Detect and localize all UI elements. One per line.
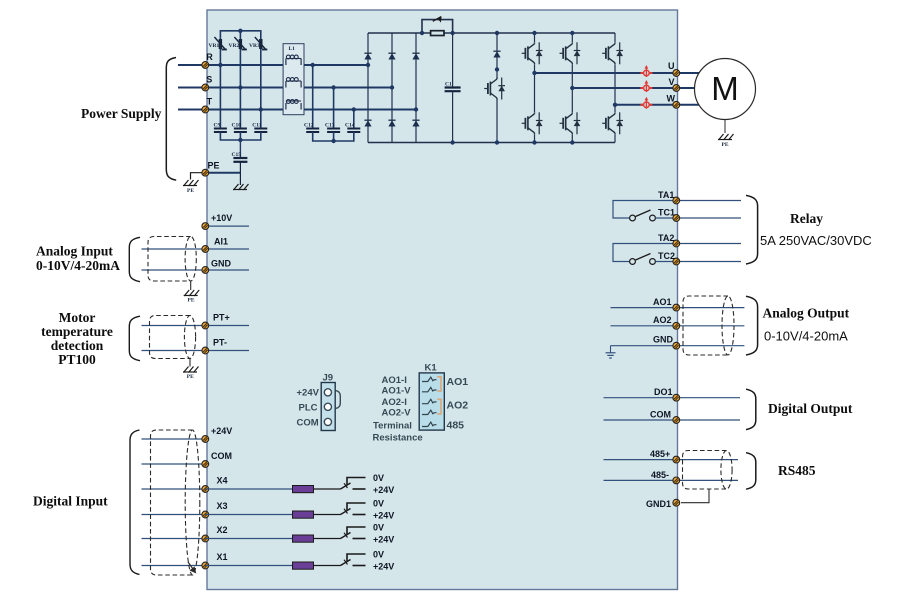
diode D3 (412, 53, 419, 59)
svg-text:+24V: +24V (211, 426, 232, 436)
svg-text:PE: PE (187, 188, 194, 194)
wire rectifier leg 3 (415, 33, 417, 143)
varistor VR3 column wire (260, 65, 262, 110)
node C13-S junction (331, 85, 335, 89)
wire AO1 output (680, 307, 744, 309)
varistor VR3 (255, 37, 268, 50)
capacitor C13 (327, 129, 340, 133)
capacitor C14 column wire (353, 110, 355, 129)
node chopper mid junction (495, 67, 499, 71)
wire X3 resistor to switch (314, 514, 341, 516)
wire C10 to join (239, 132, 241, 140)
terminal 485- (673, 477, 680, 484)
wire X1 external (142, 565, 206, 567)
svg-text:C12: C12 (304, 123, 314, 129)
wire +10V stub (205, 225, 249, 227)
svg-text:PE: PE (187, 374, 194, 380)
brake bypass switch arrow (433, 16, 442, 22)
svg-text:PE: PE (188, 298, 195, 304)
terminal TC2 (673, 258, 680, 265)
terminal AI1 (202, 246, 209, 253)
resistor X2 input (293, 535, 314, 542)
svg-text:K1: K1 (425, 363, 438, 374)
capacitor C9 column wire (219, 65, 221, 128)
terminal W (673, 101, 680, 108)
wire X3 external (142, 514, 206, 516)
svg-text:AO1: AO1 (653, 297, 672, 307)
svg-text:5A 250VAC/30VDC: 5A 250VAC/30VDC (760, 233, 872, 248)
diode chopper series (493, 51, 500, 57)
svg-text:Analog Input: Analog Input (36, 244, 113, 259)
svg-text:L1: L1 (289, 46, 296, 52)
svg-text:PT100: PT100 (58, 352, 96, 367)
svg-text:X2: X2 (217, 525, 228, 535)
varistor VR2 (234, 37, 247, 50)
wire C1 column upper (452, 33, 454, 87)
svg-text:W: W (667, 94, 676, 104)
svg-text:C14: C14 (345, 123, 355, 129)
wire AO2 stub inside (611, 325, 673, 327)
brace analog input (129, 237, 140, 281)
svg-text:GND: GND (653, 335, 674, 345)
wire inverter leg1 (534, 33, 536, 143)
wire PT- external (142, 350, 206, 352)
wire X4 to resistor (205, 488, 292, 490)
diode D6 (412, 120, 419, 126)
relay contact 1 (630, 210, 656, 221)
wire DO1 output (680, 397, 740, 399)
node C1 bottom junction (450, 140, 454, 144)
svg-text:485+: 485+ (650, 449, 670, 459)
inductor L1 box (283, 44, 304, 115)
wire S to rectifier (205, 87, 392, 89)
wire DC+ top bus (368, 32, 615, 34)
svg-text:0-10V/4-20mA: 0-10V/4-20mA (36, 258, 120, 273)
terminal X4 (202, 486, 209, 493)
node inverter bottom leg2 (570, 140, 574, 144)
terminal AO GND (673, 342, 680, 349)
svg-text:+24V: +24V (373, 535, 394, 545)
terminal V (673, 85, 680, 92)
svg-text:0V: 0V (373, 523, 384, 533)
svg-text:COM: COM (297, 418, 319, 429)
node inverter top leg2 (570, 31, 574, 35)
brake resistor bypass loop wire (422, 20, 453, 33)
svg-text:0V: 0V (373, 550, 384, 560)
wire 485+ stub inside (604, 459, 673, 461)
wire DO COM output (680, 419, 740, 421)
wire TA1 output (680, 200, 741, 202)
node VR1-R junction (218, 63, 222, 67)
terminal S (202, 84, 209, 91)
node brake loop left (420, 31, 424, 35)
wire PE to C15 column (205, 172, 240, 174)
svg-text:0V: 0V (373, 499, 384, 509)
shielded cable PT100 (150, 316, 196, 359)
wire relay1 TA1 loop (613, 201, 673, 219)
terminal TC1 (673, 215, 680, 222)
brace digital output (746, 389, 756, 429)
varistor VR1 (214, 37, 227, 50)
DIP switch K1 sw1 (422, 377, 437, 381)
wire TC2 output (680, 261, 741, 263)
relay contact 2 (630, 254, 656, 265)
ground PT100 shield (183, 367, 199, 373)
wire R to rectifier (205, 64, 368, 66)
diode D4 (364, 120, 371, 126)
wire AI1 external (142, 248, 206, 250)
node chopper top junction (495, 31, 499, 35)
svg-text:C13: C13 (325, 123, 335, 129)
brace digital input (130, 430, 140, 575)
transistor Q1 IGBT (522, 42, 543, 64)
capacitor C10 (234, 129, 247, 133)
ground motor PE (718, 134, 734, 140)
wire AO GND output (680, 345, 744, 347)
capacitor C15 (233, 158, 247, 162)
svg-text:VR3: VR3 (249, 43, 260, 49)
wire PT100 shield to ground (189, 359, 191, 367)
inductor L1 coil S (286, 78, 301, 88)
svg-text:485-: 485- (651, 470, 669, 480)
svg-text:0V: 0V (373, 473, 384, 483)
wire 485- stub inside (604, 479, 673, 481)
terminal AO1 (673, 304, 680, 311)
current sensor U phase (640, 65, 652, 77)
brace analog output (746, 296, 758, 355)
resistor X4 input (293, 486, 314, 493)
svg-text:COM: COM (211, 451, 232, 461)
motor M (695, 59, 756, 120)
terminal X1 (202, 562, 209, 569)
wire C13 to join (333, 132, 335, 141)
brace power supply (166, 58, 176, 181)
svg-text:U: U (668, 61, 675, 71)
DIP switch K1 sw4 (422, 410, 437, 414)
terminal +10V (202, 223, 209, 230)
wire relay2 TA2 loop (613, 244, 673, 262)
node W junction (613, 103, 617, 107)
svg-text:PE: PE (722, 142, 729, 148)
switch X4 SPDT (341, 478, 366, 490)
node VR2-S junction (238, 85, 242, 89)
svg-text:RS485: RS485 (778, 463, 816, 478)
svg-text:AO2: AO2 (653, 315, 672, 325)
capacitor C12 (306, 129, 319, 133)
wire analog input shield to ground (190, 281, 192, 290)
connector J9 pin2 (324, 403, 331, 410)
svg-text:C11: C11 (252, 123, 261, 129)
capacitor C12 column wire (312, 65, 314, 128)
digital input shield drain arrow (188, 562, 196, 573)
resistor X3 input (293, 511, 314, 518)
inductor L1 coil T (286, 100, 301, 110)
connector J9 pin1 (324, 389, 331, 396)
wire AO2 output (680, 325, 744, 327)
diode D2 (388, 53, 395, 59)
svg-text:AO2: AO2 (447, 400, 469, 412)
svg-text:AO2-V: AO2-V (382, 408, 412, 419)
terminal DO COM (673, 417, 680, 424)
wire X2 external (142, 538, 206, 540)
brace RS485 (746, 453, 756, 490)
wire rectifier leg 1 (367, 33, 369, 143)
wire inverter leg2 (571, 33, 573, 143)
node brake loop right (450, 31, 454, 35)
wire TA2 output (680, 243, 741, 245)
current sensor V phase (640, 80, 652, 92)
svg-text:PLC: PLC (299, 403, 318, 414)
terminal 485+ (673, 456, 680, 463)
DIP switch K1 sw2 (422, 387, 437, 391)
svg-text:C15: C15 (232, 152, 242, 158)
current sensor W phase (640, 97, 652, 109)
terminal R (202, 62, 209, 69)
wire PT- stub inside (205, 350, 249, 352)
terminal analog GND (202, 267, 209, 274)
brace relay (746, 195, 758, 264)
node VR3-T junction (259, 107, 263, 111)
terminal AO2 (673, 322, 680, 329)
wire S input stub (178, 87, 205, 89)
capacitor C10 column wire (239, 88, 241, 129)
wire X2 resistor to switch (314, 538, 341, 540)
svg-text:TA1: TA1 (658, 190, 674, 200)
transistor Q4 IGBT (560, 112, 581, 134)
capacitor C13 column wire (333, 88, 335, 129)
signal ground AO (606, 346, 616, 358)
wire C1 column lower (452, 91, 454, 142)
ground below C15 (233, 184, 249, 190)
varistor top bus wire (220, 31, 260, 65)
DIP switch K1 body (419, 373, 444, 430)
wire relay1 to TC1 (655, 217, 672, 219)
svg-text:X4: X4 (217, 476, 228, 486)
ground analog input shield (184, 290, 200, 296)
connector J9 pin3 (324, 418, 331, 425)
svg-text:+24V: +24V (373, 485, 394, 495)
svg-text:TC2: TC2 (658, 251, 675, 261)
wire COM external (142, 463, 206, 465)
shielded cable digital input (151, 430, 200, 575)
svg-text:0-10V/4-20mA: 0-10V/4-20mA (764, 329, 848, 344)
wire DC- bottom bus (368, 142, 615, 144)
wire relay2 to TC2 (655, 261, 672, 263)
wire AI1 stub inside (205, 248, 249, 250)
svg-text:temperature: temperature (41, 324, 113, 339)
svg-text:AO1: AO1 (447, 376, 469, 388)
svg-text:detection: detection (51, 338, 104, 353)
wire U output (535, 72, 673, 74)
svg-text:485: 485 (447, 420, 465, 432)
terminal GND1 (673, 499, 680, 506)
svg-text:PE: PE (208, 161, 220, 171)
svg-text:X3: X3 (217, 501, 228, 511)
wire PE external stub (191, 173, 206, 180)
svg-text:DO1: DO1 (654, 387, 673, 397)
svg-text:COM: COM (650, 410, 671, 420)
wire V output (572, 87, 672, 89)
brace PT100 (129, 316, 140, 361)
wire T to rectifier (205, 109, 416, 111)
shielded cable RS485 (683, 451, 733, 490)
svg-text:M: M (711, 70, 739, 107)
svg-text:V: V (668, 77, 674, 87)
svg-text:S: S (206, 74, 212, 84)
wire GND external (142, 269, 206, 271)
capacitor C11 column wire (260, 110, 262, 129)
capacitor C11 (254, 129, 267, 133)
svg-text:AO1-V: AO1-V (382, 386, 412, 397)
wire TC1 output (680, 217, 741, 219)
svg-text:X1: X1 (217, 552, 228, 562)
switch X1 SPDT (341, 554, 366, 566)
wire C12-C14 bottom join (313, 132, 354, 141)
wire GND stub inside (205, 269, 249, 271)
svg-text:PT+: PT+ (213, 313, 230, 323)
node U junction (532, 71, 536, 75)
capacitor C9 (214, 129, 227, 133)
wire X3 to resistor (205, 514, 292, 516)
wire 485+ output (680, 459, 738, 461)
switch X3 SPDT (341, 503, 366, 515)
K1 bracket AO1 (437, 377, 441, 391)
svg-text:AI1: AI1 (214, 237, 228, 247)
terminal PE (202, 169, 209, 176)
capacitor C1 (445, 88, 461, 92)
diode D5 (388, 120, 395, 126)
wire V to motor (680, 87, 695, 89)
node rectifier leg2 S junction (390, 85, 394, 89)
wire DO1 stub inside (604, 397, 673, 399)
DIP switch K1 sw5 (422, 422, 437, 426)
transistor Q6 IGBT (602, 112, 623, 134)
wire AO GND stub inside (611, 345, 673, 347)
connector J9 body (321, 383, 335, 431)
svg-text:C9: C9 (214, 123, 221, 129)
svg-text:VR1: VR1 (209, 43, 220, 49)
wire X4 resistor to switch (314, 488, 341, 490)
svg-text:TA2: TA2 (658, 233, 674, 243)
wire PT+ stub inside (205, 325, 249, 327)
terminal +24V (202, 436, 209, 443)
svg-text:Terminal: Terminal (373, 421, 412, 432)
node C13 join (331, 139, 335, 143)
wire RS485 shield to GND1 (681, 489, 709, 503)
resistor brake (braking resistor) (431, 31, 444, 36)
wire rectifier leg 2 (391, 33, 393, 143)
svg-text:+24V: +24V (373, 511, 394, 521)
wire motor to ground (724, 120, 726, 134)
svg-text:PT-: PT- (213, 338, 227, 348)
node V junction (570, 86, 574, 90)
svg-text:Digital Output: Digital Output (768, 401, 853, 416)
node chopper bottom junction (495, 140, 499, 144)
svg-text:T: T (207, 97, 213, 107)
wire +24V external (142, 438, 206, 440)
transistor chopper IGBT (484, 78, 505, 100)
svg-text:Digital Input: Digital Input (33, 494, 108, 509)
wire R input stub (178, 64, 205, 66)
wire T input stub (178, 109, 205, 111)
shielded cable analog output (683, 296, 734, 355)
wire W output (615, 104, 673, 106)
terminal TA2 (673, 240, 680, 247)
wire W to motor (680, 104, 700, 106)
svg-text:GND1: GND1 (646, 499, 671, 509)
node inverter top leg1 (532, 31, 536, 35)
terminal T (202, 106, 209, 113)
wire 485- output (680, 479, 738, 481)
svg-text:R: R (206, 52, 213, 62)
terminal PT- (202, 347, 209, 354)
node C12-R junction (311, 63, 315, 67)
svg-text:+10V: +10V (211, 213, 232, 223)
node C14-T junction (352, 107, 356, 111)
switch X2 SPDT (341, 527, 366, 539)
wire chopper leg upper (496, 33, 498, 78)
transistor Q3 IGBT (560, 42, 581, 64)
svg-text:Power Supply: Power Supply (81, 106, 162, 121)
wire DO COM stub inside (604, 419, 673, 421)
node rectifier leg1 R junction (366, 63, 370, 67)
node rectifier leg3 T junction (414, 107, 418, 111)
transistor Q5 IGBT (602, 42, 623, 64)
svg-text:+24V: +24V (373, 562, 394, 572)
diode D1 (364, 53, 371, 59)
terminal X2 (202, 535, 209, 542)
DIP switch K1 sw3 (422, 399, 437, 403)
connector J9 jumper bracket (336, 391, 341, 409)
wire chopper leg lower (496, 100, 498, 143)
svg-text:Motor: Motor (59, 310, 96, 325)
main drive enclosure box (207, 10, 678, 590)
capacitor C14 (347, 129, 360, 133)
inductor L1 coil R (286, 55, 301, 65)
wire U to motor (680, 72, 700, 74)
ground PE external (183, 180, 199, 186)
varistor VR2 column wire (239, 31, 241, 88)
wire join to C15 (239, 140, 241, 158)
transistor Q2 IGBT (522, 112, 543, 134)
svg-text:Analog Output: Analog Output (763, 306, 850, 321)
wire inverter leg3 (614, 33, 616, 143)
shielded cable analog input (148, 236, 196, 281)
wire C15 to ground (239, 162, 241, 185)
terminal digital COM (202, 461, 209, 468)
node C10 join (238, 138, 242, 142)
svg-text:+24V: +24V (297, 388, 320, 399)
wire X1 resistor to switch (314, 565, 341, 567)
svg-text:C1: C1 (445, 82, 452, 88)
svg-text:C10: C10 (232, 123, 242, 129)
K1 bracket AO2 (437, 399, 441, 414)
svg-text:TC1: TC1 (658, 208, 675, 218)
wire PT+ external (142, 325, 206, 327)
wire C9-C11 bottom join (220, 132, 260, 140)
svg-text:VR2: VR2 (229, 43, 240, 49)
terminal TA1 (673, 197, 680, 204)
resistor X1 input (293, 562, 314, 569)
wire X4 external (142, 488, 206, 490)
svg-text:Resistance: Resistance (373, 433, 423, 444)
node inverter bottom leg1 (532, 140, 536, 144)
wire X2 to resistor (205, 538, 292, 540)
node varistor top bus junction (238, 29, 242, 33)
terminal U (673, 70, 680, 77)
wire AO1 stub inside (611, 307, 673, 309)
svg-text:AO1-I: AO1-I (382, 375, 407, 386)
